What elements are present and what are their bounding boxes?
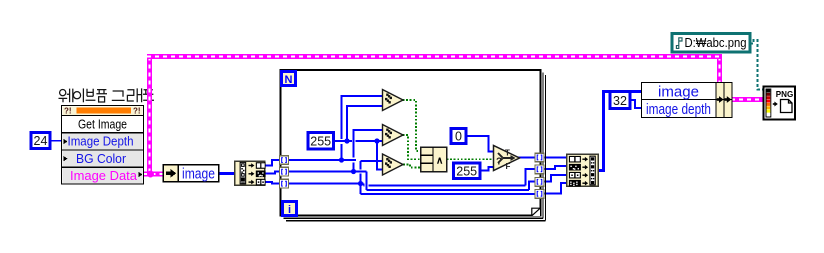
- for loop corner fold: [532, 208, 540, 216]
- for loop frame: [281, 70, 546, 221]
- svg-text:F: F: [506, 162, 511, 171]
- wire: out tunnel 4 to Interleave in4: [544, 183, 567, 194]
- invoke node Waveform Graph body: [62, 106, 144, 185]
- wire: unbundle image out to Decimate input: [218, 172, 236, 175]
- iteration terminal i: [283, 202, 297, 216]
- svg-text:255: 255: [456, 165, 477, 179]
- Equal? comparison 3 (B==255): [383, 154, 404, 175]
- svg-text:image: image: [658, 84, 699, 100]
- svg-text:Get Image: Get Image: [78, 117, 127, 131]
- wire: G up to Equal2 upper input: [354, 130, 384, 171]
- numeric constant 0: [451, 129, 466, 144]
- path constant D:abc.png: [672, 34, 750, 53]
- wire: pink drop to Bundle node: [717, 57, 722, 84]
- decimate array node: [234, 161, 266, 187]
- wire: Equal2 output to AND input2 (boolean): [403, 135, 421, 159]
- Equal? comparison 1 (R==255): [383, 90, 404, 111]
- svg-text:?: ?: [496, 157, 502, 168]
- wire: tunnel1 R value rail: [288, 159, 356, 161]
- svg-text:image depth: image depth: [646, 102, 711, 118]
- wire: 0 constant to Select t input: [466, 136, 495, 152]
- left tunnel 3 (B): [280, 179, 289, 188]
- wire: Decimate out1 to left tunnel 1: [266, 160, 282, 166]
- wire: out tunnel 1 to Interleave in1: [544, 156, 567, 158]
- numeric constant 32: [610, 92, 630, 109]
- wire: 24 to Image Depth: [50, 140, 63, 142]
- unbundle node image element: [163, 164, 220, 183]
- invoke node row BG Color: [63, 151, 143, 167]
- svg-text:24: 24: [34, 134, 48, 148]
- svg-text:D:₩abc.png: D:₩abc.png: [685, 36, 747, 50]
- junction: pink wire branch dot: [147, 171, 154, 178]
- svg-text:N: N: [285, 74, 293, 86]
- loop count terminal N: [282, 72, 296, 86]
- wire: Select output to out tunnel 1: [518, 157, 536, 159]
- wire: Image Data cluster from invoke node to top rail: [144, 172, 164, 177]
- wire: Equal1 output to AND input1 (boolean): [403, 100, 421, 151]
- svg-text:i: i: [288, 204, 291, 216]
- wire: 255 constant to Select f input: [480, 167, 495, 171]
- wire: tunnel3 B value rail: [288, 183, 361, 185]
- wire: Decimate out2 to left tunnel 2: [266, 172, 282, 174]
- select node: [494, 146, 520, 171]
- svg-text:?!: ?!: [64, 107, 72, 116]
- wire: Decimate out3 to left tunnel 3: [266, 182, 282, 184]
- invoke node row Image Data: [63, 168, 143, 184]
- wire: tunnel2 G value rail: [288, 171, 367, 173]
- interleave 1D arrays node: [566, 154, 599, 188]
- wire: out tunnel 2 to Interleave in2: [544, 166, 567, 169]
- svg-text:Image Depth: Image Depth: [68, 135, 134, 149]
- wire: 255 to Equal3 lower input: [377, 141, 383, 170]
- wire: 255 to Equal1 lower input: [347, 106, 383, 141]
- junction: G rail dot: [351, 169, 356, 174]
- wire: path constant to Write PNG (teal path wire): [750, 40, 764, 90]
- numeric constant 255 (false case): [454, 163, 481, 179]
- svg-text:Image Data: Image Data: [70, 169, 137, 183]
- wire: B riser to Equal3 upper input and down to bottom rail: [361, 161, 384, 194]
- junction: 255 rail dots: [344, 138, 349, 143]
- svg-text:image: image: [182, 166, 215, 182]
- numeric constant 255: [308, 133, 334, 150]
- wire: pink rails on top of label: [147, 57, 152, 175]
- compound arithmetic AND node: [421, 147, 447, 172]
- svg-text:PNG: PNG: [776, 89, 794, 99]
- numeric constant 24: [31, 133, 50, 149]
- wire: 32 to Bundle image depth input: [630, 100, 642, 108]
- junction: B rail dot: [358, 181, 363, 186]
- bundle by name node (image, image depth): [642, 83, 733, 118]
- invoke node label waveform graph (korean): [59, 88, 155, 102]
- right tunnel 3: [535, 178, 544, 187]
- wire: out tunnel 3 to Interleave in3: [544, 175, 567, 182]
- svg-text:T: T: [505, 149, 510, 158]
- svg-text:0: 0: [455, 130, 462, 144]
- right tunnel 1: [535, 153, 544, 162]
- junction: R rail dot: [339, 157, 344, 162]
- invoke node row Image Depth: [63, 133, 143, 149]
- wire: bottom rail to out tunnel 4: [361, 193, 537, 195]
- wire: R to Equal1 upper input: [342, 96, 384, 159]
- right tunnel 4: [535, 190, 544, 199]
- svg-text:32: 32: [613, 94, 627, 108]
- wire: AND output to Select s input (boolean): [447, 158, 495, 160]
- wire: Interleave output to Bundle image input: [598, 92, 642, 171]
- wire: 255 constant rail: [334, 140, 383, 142]
- left tunnel 1 (R): [280, 156, 289, 165]
- invoke node header: [63, 107, 143, 116]
- wire: pink top rail: [147, 54, 722, 59]
- svg-text:255: 255: [310, 135, 331, 149]
- right tunnel 2: [535, 165, 544, 174]
- wire: G rail down then right to out tunnel 3: [367, 172, 537, 191]
- Equal? comparison 2 (G==255): [383, 125, 404, 146]
- svg-text:∧: ∧: [436, 156, 443, 167]
- write PNG file node: [764, 87, 796, 120]
- wire: Equal3 output to AND input3 (boolean): [403, 165, 421, 168]
- left tunnel 2 (G): [280, 167, 289, 176]
- wire: pink Bundle output to Write PNG node: [731, 97, 764, 102]
- svg-text:BG Color: BG Color: [76, 152, 126, 166]
- wire: B rail continues to out tunnel 2: [361, 169, 537, 186]
- svg-text:?!: ?!: [133, 107, 141, 116]
